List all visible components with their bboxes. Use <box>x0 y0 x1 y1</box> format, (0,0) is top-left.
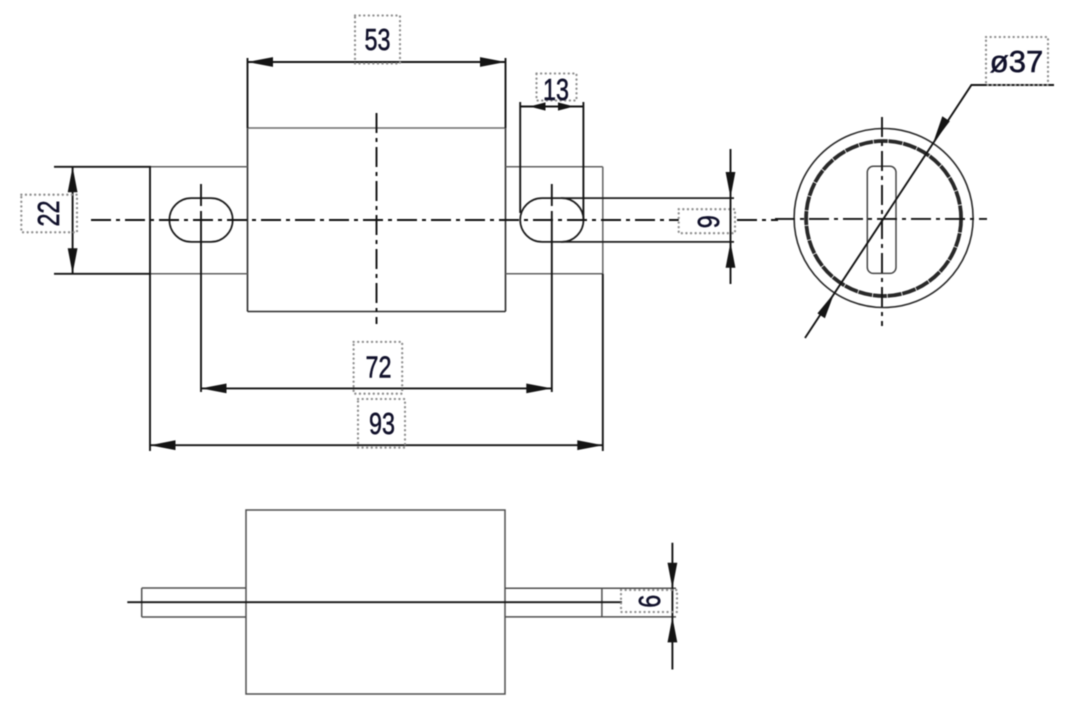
dimension 93: extension lines <box>150 167 603 451</box>
svg-text:93: 93 <box>369 406 395 441</box>
front view: left slot hole <box>169 198 232 242</box>
dimension 9: label box <box>679 209 735 233</box>
bottom view: left shaft <box>142 588 246 617</box>
dimension 6: label box <box>621 590 677 612</box>
dimension 53: extension lines <box>248 58 506 128</box>
svg-text:13: 13 <box>543 72 569 107</box>
front view: body outline <box>248 128 506 312</box>
svg-text:53: 53 <box>365 22 391 57</box>
bottom view: solid centerline <box>127 601 622 603</box>
dimension 22: dimension line with arrows <box>72 167 74 274</box>
dimension 13: label box <box>537 74 577 101</box>
side view: inner thick circle <box>806 141 961 296</box>
dimension 22: label box <box>21 195 77 233</box>
front view: right slot center extension line <box>551 184 553 392</box>
front view: shaft arm <box>561 198 734 242</box>
dimension diameter 37: label box <box>986 37 1048 85</box>
front view: left slot center extension line <box>200 184 202 392</box>
dimension 13: extension lines <box>520 102 583 220</box>
svg-text:6: 6 <box>632 595 667 608</box>
front view: left flange <box>150 167 248 274</box>
svg-text:72: 72 <box>366 350 392 385</box>
bottom view: body rectangle <box>246 510 505 694</box>
bottom view: right shaft with extension lines <box>505 588 676 617</box>
dimension 72: dimension line with arrows <box>201 387 552 389</box>
dimension 93: dimension line with arrows <box>150 444 603 446</box>
dimension 9: dimension line with arrows (at shaft end) <box>730 149 732 284</box>
side view: horizontal centerline <box>775 218 987 220</box>
front view: horizontal centerline <box>91 219 778 221</box>
front view: right flange <box>506 167 603 274</box>
front view: right slot hole <box>520 198 583 242</box>
dimension 72: label box <box>354 342 403 394</box>
svg-text:9: 9 <box>691 215 726 228</box>
dimension 6: dimension line with arrows <box>671 543 673 670</box>
dimension 22: extension lines <box>54 167 151 274</box>
side view: vertical centerline <box>881 117 883 326</box>
dimension 53: dimension line with arrows <box>248 61 506 63</box>
dimension 13: dimension line with reversed arrows <box>520 106 583 108</box>
side view: keyway slot <box>867 166 896 273</box>
dimension 53: label box <box>355 16 400 64</box>
svg-text:ø37: ø37 <box>990 44 1043 79</box>
dimension diameter 37: leader line <box>805 85 1054 338</box>
dimension 93: label box <box>358 399 405 448</box>
front view: body top edge <box>248 127 506 129</box>
front view: vertical centerline <box>376 113 378 324</box>
side view: outer circle <box>794 129 973 308</box>
dimension diameter 37: arrowheads <box>933 116 950 144</box>
svg-text:22: 22 <box>31 201 66 227</box>
